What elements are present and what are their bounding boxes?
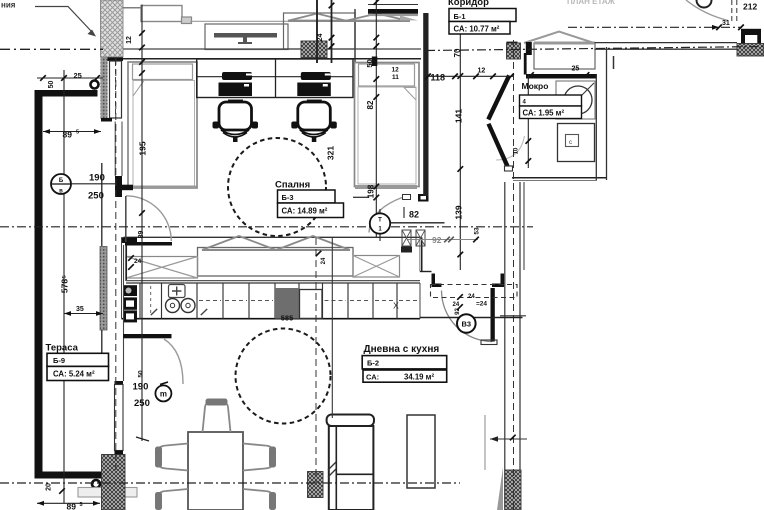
wall terrace left — [35, 90, 43, 479]
svg-text:Коридор: Коридор — [448, 0, 489, 8]
X-cabinet right — [353, 256, 400, 278]
svg-text:195: 195 — [138, 141, 148, 155]
wall mokro bottom — [512, 177, 607, 179]
svg-text:ПЛАН ЕТАЖ: ПЛАН ЕТАЖ — [567, 0, 616, 6]
svg-text:Дневна с кухня: Дневна с кухня — [364, 344, 440, 355]
corridor bench/closet — [534, 43, 595, 69]
svg-text:141: 141 — [454, 109, 464, 123]
sofa — [327, 415, 374, 427]
dim line x101.8 — [101, 163, 103, 246]
chair left 1 — [158, 444, 188, 471]
svg-text:ния: ния — [1, 1, 16, 10]
door arc mokro — [496, 136, 525, 160]
dim chain x335 — [331, 0, 333, 63]
svg-text:35: 35 — [76, 306, 84, 313]
svg-text:Б-9: Б-9 — [53, 356, 65, 365]
hatch column living — [308, 472, 324, 498]
hatch block bottom corridor — [505, 470, 521, 510]
entry jamb left — [432, 274, 442, 288]
wall bedroom south piece — [353, 196, 369, 198]
dim 82 bedroom door — [403, 207, 405, 218]
living room east wall bits — [484, 415, 486, 470]
laptop 1 — [222, 72, 252, 80]
wall stub connector — [524, 53, 527, 75]
door arc top-right — [686, 0, 728, 21]
coffee table — [407, 415, 435, 488]
svg-text:12: 12 — [478, 68, 486, 75]
shelf top-left — [141, 6, 182, 22]
svg-text:585: 585 — [281, 314, 294, 323]
axis dash-dot y49 — [0, 48, 103, 50]
washing machine — [556, 81, 595, 119]
svg-text:СА: 14.89 м²: СА: 14.89 м² — [282, 207, 328, 216]
dim 31 / 212 top right — [716, 25, 722, 31]
dim chain x142 — [141, 5, 143, 442]
axis dashed x513.5 — [513, 40, 515, 510]
shower tray — [558, 124, 595, 162]
sink bowls — [166, 299, 180, 313]
wall mokro top — [526, 74, 597, 79]
svg-text:СА: 1.95 м²: СА: 1.95 м² — [523, 109, 565, 118]
svg-text:10: 10 — [514, 147, 520, 154]
axis dash-dot y27 top-right — [568, 26, 742, 28]
svg-text:578⁵: 578⁵ — [60, 275, 70, 293]
svg-text:5: 5 — [80, 502, 83, 508]
svg-text:190: 190 — [133, 382, 149, 393]
dim chain x528 — [527, 75, 529, 168]
svg-text:5: 5 — [76, 130, 79, 136]
svg-text:321: 321 — [326, 146, 336, 160]
svg-text:m: m — [160, 390, 167, 399]
svg-text:20: 20 — [46, 483, 53, 491]
wall corridor/bedroom — [423, 13, 428, 196]
svg-text:92: 92 — [432, 235, 442, 245]
svg-text:=24: =24 — [476, 301, 487, 308]
svg-text:82: 82 — [366, 100, 375, 109]
svg-text:СА:: СА: — [366, 373, 379, 382]
axis dashed x116 — [115, 58, 117, 470]
line y317.5 + B3 bubble — [420, 317, 523, 319]
svg-text:250: 250 — [88, 191, 104, 202]
svg-text:70: 70 — [453, 48, 462, 57]
fridge — [275, 288, 299, 319]
svg-text:89: 89 — [67, 502, 77, 510]
svg-text:50: 50 — [138, 370, 145, 378]
dim ticks top wardrobe — [316, 251, 322, 257]
wall stub left of mokro — [526, 42, 532, 55]
hatch block bedroom top — [301, 41, 327, 58]
hatch wall top-left — [101, 0, 124, 57]
dim chain x64 — [63, 70, 65, 504]
svg-text:190: 190 — [89, 173, 105, 184]
svg-text:50: 50 — [365, 59, 374, 67]
chair right 1 — [243, 444, 273, 471]
office chair 2 — [307, 99, 322, 101]
door arc entry — [442, 291, 493, 342]
door arc bedroom — [369, 198, 402, 233]
wall kitchen/terrace — [125, 242, 172, 246]
entry jamb right — [492, 274, 504, 288]
wall living/terrace bar — [123, 334, 172, 338]
svg-text:89: 89 — [63, 130, 73, 140]
door jamb bedroom — [403, 195, 411, 200]
svg-text:Б-1: Б-1 — [454, 12, 466, 21]
svg-text:25: 25 — [74, 71, 82, 80]
ring top — [91, 81, 99, 89]
wall mokro diagonal 2 — [487, 123, 511, 169]
wall terrace bottom — [35, 472, 103, 479]
svg-text:24: 24 — [134, 258, 142, 265]
svg-text:Мокро: Мокро — [522, 81, 549, 91]
turning circle bedroom — [228, 138, 326, 236]
wall segment below kitchen — [123, 245, 125, 334]
svg-text:24: 24 — [321, 257, 327, 264]
axis dash-dot y50/47 — [426, 47, 764, 51]
ring bottom — [92, 480, 100, 488]
svg-text:50: 50 — [48, 81, 55, 89]
hatch cap — [507, 42, 518, 45]
svg-text:212: 212 — [743, 2, 757, 12]
svg-text:в: в — [59, 189, 63, 195]
X-cabinet left — [126, 257, 198, 279]
wall piece above kitchen door — [115, 176, 122, 197]
axis bubble 2 — [379, 209, 381, 241]
door arc living-terrace lower — [164, 339, 183, 384]
wall terrace top — [35, 90, 98, 97]
corridor lower walls — [421, 237, 423, 271]
chair top — [203, 403, 231, 433]
hatch strip kitchen wall — [100, 247, 107, 331]
dining table — [188, 432, 243, 510]
terrace door in wall — [115, 381, 124, 385]
wardrobe top (bedroom) — [284, 13, 356, 49]
axis line x332 — [331, 237, 333, 418]
turning circle living — [236, 329, 331, 424]
svg-text:34.19 м²: 34.19 м² — [404, 373, 434, 382]
svg-text:24: 24 — [317, 34, 324, 42]
wall top-right black — [741, 29, 761, 35]
svg-text:82: 82 — [409, 210, 419, 220]
bed B2 (right, vertical) — [355, 63, 420, 187]
hatch block corridor top — [507, 43, 521, 59]
dim 92 y239 — [408, 239, 478, 241]
svg-text:СА: 5.24 м²: СА: 5.24 м² — [53, 370, 95, 379]
ticks corridor wall — [500, 315, 526, 317]
axis dashed x316 — [315, 238, 317, 483]
svg-text:198: 198 — [367, 184, 376, 198]
wall mokro right — [595, 74, 597, 180]
laptop 2 — [301, 72, 331, 80]
bed B1 (left, vertical) — [128, 62, 197, 188]
axis x317 top solid — [316, 0, 318, 63]
svg-text:24: 24 — [468, 294, 475, 300]
dim y78 — [37, 77, 103, 79]
svg-text:12: 12 — [392, 67, 400, 74]
wardrobe south (bedroom) + hangers — [124, 236, 422, 238]
svg-text:12: 12 — [126, 36, 133, 44]
svg-text:53: 53 — [474, 227, 481, 235]
svg-text:Спалня: Спалня — [275, 180, 310, 191]
svg-text:139: 139 — [454, 205, 464, 219]
dim 35 — [64, 313, 103, 315]
svg-text:В3: В3 — [462, 320, 472, 329]
axis dashed x732/737 — [731, 0, 733, 22]
wall mokro diagonal 1 — [486, 75, 511, 121]
svg-text:31: 31 — [722, 20, 730, 27]
chair right 2 — [243, 489, 273, 510]
svg-text:Тераса: Тераса — [46, 343, 79, 354]
svg-text:250: 250 — [134, 398, 150, 409]
tv cabinet — [190, 20, 316, 22]
svg-text:X: X — [393, 301, 399, 311]
axis dash-dot y483 — [0, 482, 460, 484]
black cabinet blocks — [123, 285, 137, 296]
corridor wall right verticals — [504, 182, 506, 510]
left wall column: window bedroom/terrace — [103, 57, 123, 61]
axis dash-dot y227 — [0, 226, 533, 228]
wall top bedroom black bar — [368, 4, 418, 6]
chair left 2 — [158, 489, 188, 510]
thermo circle m — [155, 385, 171, 401]
desks — [197, 59, 353, 98]
dim h y76 — [425, 75, 513, 77]
dim chain x376 — [375, 0, 377, 237]
svg-text:11: 11 — [392, 74, 399, 81]
step mat terrace — [78, 488, 137, 498]
wall neighbor stub — [613, 56, 615, 69]
svg-text:СА: 10.77 м²: СА: 10.77 м² — [454, 25, 500, 34]
sink faucet — [169, 285, 186, 298]
svg-text:Т: Т — [378, 218, 382, 224]
svg-text:89: 89 — [138, 231, 145, 239]
hatch block top-right — [737, 44, 764, 57]
svg-text:118: 118 — [431, 73, 446, 83]
dim 89.5 top — [43, 131, 101, 133]
kitchen counter — [126, 282, 420, 284]
entry door leaf — [491, 288, 495, 342]
hatch block bottom-left — [102, 455, 126, 510]
svg-text:Б: Б — [59, 178, 64, 184]
small x-boxes entry — [402, 230, 411, 246]
entry threshold dashed — [431, 285, 518, 298]
tv — [214, 33, 277, 38]
svg-text:25: 25 — [572, 66, 580, 73]
wall top-right double — [595, 42, 738, 44]
top line left of shelf — [123, 7, 141, 9]
dim chain x460 — [459, 33, 461, 270]
bubble top-right — [697, 0, 712, 8]
door arc terrace (kitchen) — [126, 196, 171, 241]
office chair 1 — [228, 99, 243, 101]
axis bubble 1 — [51, 174, 71, 194]
svg-text:Б-2: Б-2 — [367, 359, 379, 368]
svg-text:c: c — [569, 140, 572, 146]
svg-text:Б-3: Б-3 — [282, 193, 294, 202]
